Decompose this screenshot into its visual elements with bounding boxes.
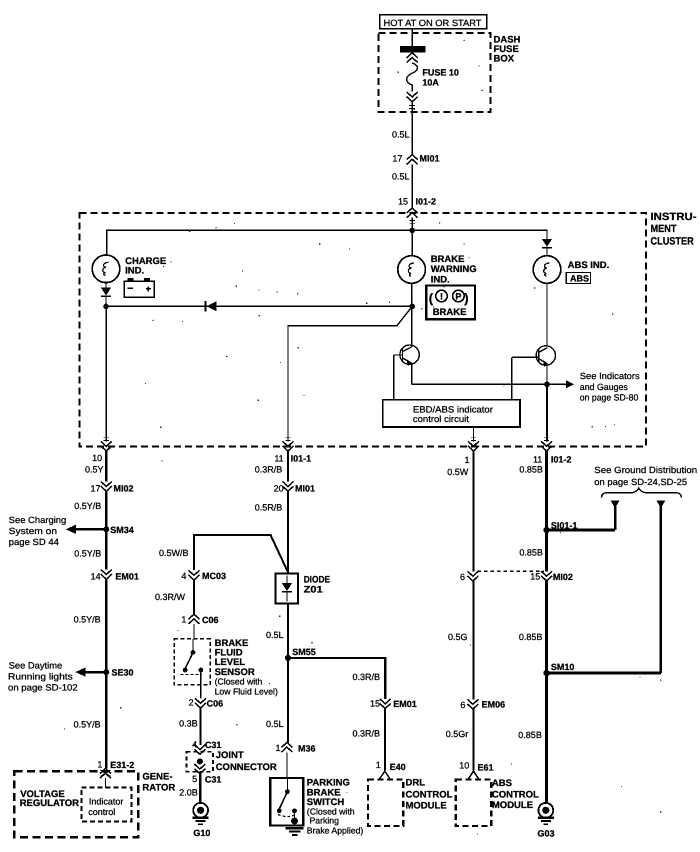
svg-text:EM01: EM01	[115, 572, 139, 582]
svg-text:Z01: Z01	[304, 584, 324, 595]
svg-text:17: 17	[392, 154, 402, 164]
svg-text:): )	[464, 291, 468, 306]
svg-text:E61: E61	[478, 763, 494, 773]
svg-text:MC03: MC03	[202, 571, 226, 581]
svg-text:INSTRU-: INSTRU-	[651, 211, 698, 223]
svg-text:0.5Gr: 0.5Gr	[446, 729, 469, 739]
svg-text:!: !	[440, 292, 443, 302]
svg-text:1: 1	[275, 743, 280, 753]
svg-text:2: 2	[189, 697, 194, 707]
svg-text:0.5L: 0.5L	[392, 172, 410, 182]
svg-text:JOINT: JOINT	[216, 750, 244, 761]
svg-text:0.5Y: 0.5Y	[85, 465, 104, 475]
svg-text:0.3B: 0.3B	[179, 719, 198, 729]
svg-text:control circuit: control circuit	[413, 414, 470, 424]
svg-text:EM01: EM01	[393, 699, 417, 709]
svg-text:FUSE 10: FUSE 10	[422, 67, 459, 77]
svg-text:See Charging: See Charging	[9, 515, 67, 525]
svg-text:0.3R/W: 0.3R/W	[155, 592, 186, 602]
svg-text:0.5L: 0.5L	[392, 130, 410, 140]
svg-text:0.3R/B: 0.3R/B	[255, 465, 283, 475]
svg-text:MI01: MI01	[420, 154, 440, 164]
svg-text:MI02: MI02	[553, 572, 573, 582]
svg-text:C06: C06	[202, 615, 219, 625]
svg-text:15: 15	[398, 197, 408, 207]
svg-text:Running lights: Running lights	[8, 672, 73, 682]
svg-text:(: (	[429, 291, 434, 306]
svg-text:See Ground Distribution: See Ground Distribution	[594, 465, 697, 475]
svg-text:0.5W: 0.5W	[447, 467, 469, 477]
svg-text:CONNECTOR: CONNECTOR	[216, 762, 277, 773]
svg-text:0.5R/B: 0.5R/B	[255, 503, 283, 513]
svg-text:CLUSTER: CLUSTER	[651, 236, 695, 248]
svg-text:BRAKE: BRAKE	[433, 307, 467, 318]
svg-text:0.5Y/B: 0.5Y/B	[74, 720, 101, 730]
svg-text:DRL: DRL	[406, 778, 426, 789]
svg-text:10: 10	[92, 453, 102, 463]
svg-text:RATOR: RATOR	[142, 782, 175, 793]
svg-text:MODULE: MODULE	[492, 800, 533, 811]
svg-text:0.3R/B: 0.3R/B	[353, 672, 381, 682]
svg-text:GENE-: GENE-	[142, 771, 172, 782]
svg-text:0.5Y/B: 0.5Y/B	[74, 548, 101, 558]
svg-text:EM06: EM06	[482, 700, 506, 710]
svg-text:page SD 44: page SD 44	[9, 537, 59, 547]
svg-text:MENT: MENT	[651, 223, 678, 235]
svg-text:REGULATOR: REGULATOR	[20, 798, 79, 809]
svg-text:C31: C31	[205, 774, 222, 784]
svg-text:15: 15	[370, 699, 380, 709]
svg-text:HOT AT ON OR START: HOT AT ON OR START	[384, 18, 483, 28]
svg-text:11: 11	[274, 454, 283, 464]
svg-text:Brake Applied): Brake Applied)	[307, 826, 364, 836]
svg-text:System on: System on	[9, 526, 57, 536]
svg-text:0.5Y/B: 0.5Y/B	[74, 615, 101, 625]
svg-text:0.5L: 0.5L	[266, 630, 284, 640]
svg-text:E31-2: E31-2	[110, 760, 134, 770]
svg-text:0.5Y/B: 0.5Y/B	[74, 501, 101, 511]
svg-text:20: 20	[274, 484, 284, 494]
svg-text:G03: G03	[538, 829, 555, 839]
svg-text:0.3R/B: 0.3R/B	[353, 729, 381, 739]
svg-text:0.85B: 0.85B	[519, 465, 543, 475]
svg-text:I01-2: I01-2	[551, 455, 572, 465]
svg-text:P: P	[455, 292, 461, 302]
svg-text:C31: C31	[205, 740, 222, 750]
svg-text:2.0B: 2.0B	[179, 788, 198, 798]
svg-text:MI01: MI01	[295, 484, 315, 494]
svg-text:5: 5	[192, 774, 197, 784]
svg-text:MI02: MI02	[114, 484, 134, 494]
svg-text:ABS IND.: ABS IND.	[568, 260, 610, 271]
svg-text:SE30: SE30	[112, 668, 134, 678]
svg-text:See Daytime: See Daytime	[9, 661, 63, 671]
svg-text:6: 6	[460, 700, 465, 710]
svg-text:15: 15	[530, 572, 540, 582]
svg-text:G10: G10	[193, 828, 210, 838]
svg-text:on page SD-102: on page SD-102	[8, 683, 78, 693]
svg-text:1: 1	[181, 614, 186, 624]
svg-text:See Indicators: See Indicators	[580, 371, 640, 381]
svg-text:1: 1	[464, 455, 469, 465]
svg-text:0.85B: 0.85B	[518, 730, 542, 740]
svg-text:MODULE: MODULE	[406, 800, 447, 811]
svg-text:CONTROL: CONTROL	[406, 790, 453, 801]
svg-text:IND.: IND.	[431, 274, 450, 285]
svg-text:6: 6	[460, 572, 465, 582]
svg-text:on page SD-80: on page SD-80	[580, 392, 639, 402]
svg-text:10: 10	[459, 761, 469, 771]
svg-text:14: 14	[91, 572, 101, 582]
svg-text:11: 11	[533, 455, 542, 465]
svg-text:I01-2: I01-2	[416, 197, 437, 207]
svg-text:and Gauges: and Gauges	[580, 382, 628, 392]
svg-text:0.5W/B: 0.5W/B	[159, 548, 189, 558]
svg-text:Low Fluid Level): Low Fluid Level)	[215, 686, 278, 696]
svg-text:4: 4	[192, 740, 197, 750]
svg-text:0.85B: 0.85B	[519, 547, 543, 557]
svg-text:BOX: BOX	[494, 53, 515, 64]
svg-text:C06: C06	[207, 698, 224, 708]
svg-text:Parking: Parking	[310, 816, 340, 826]
svg-text:0.5L: 0.5L	[266, 719, 284, 729]
svg-text:Indicator: Indicator	[89, 796, 124, 806]
svg-text:E40: E40	[390, 762, 406, 772]
svg-text:10A: 10A	[422, 77, 439, 87]
svg-text:M36: M36	[298, 743, 316, 753]
svg-text:control: control	[88, 807, 115, 817]
svg-text:SM34: SM34	[110, 525, 134, 535]
svg-text:ABS: ABS	[492, 778, 512, 789]
svg-text:SM55: SM55	[292, 647, 316, 657]
svg-text:1: 1	[376, 760, 381, 770]
svg-text:ABS: ABS	[570, 273, 589, 283]
svg-text:IND.: IND.	[125, 266, 144, 277]
svg-text:on page SD-24,SD-25: on page SD-24,SD-25	[594, 477, 687, 487]
svg-text:17: 17	[90, 484, 100, 494]
svg-text:I01-1: I01-1	[291, 454, 312, 464]
svg-text:CONTROL: CONTROL	[492, 789, 539, 800]
svg-text:0.5G: 0.5G	[448, 632, 468, 642]
svg-text:1: 1	[97, 760, 102, 770]
svg-text:SM10: SM10	[551, 662, 575, 672]
svg-text:0.85B: 0.85B	[519, 632, 543, 642]
svg-text:(Closed with: (Closed with	[215, 677, 263, 687]
svg-text:4: 4	[181, 571, 186, 581]
